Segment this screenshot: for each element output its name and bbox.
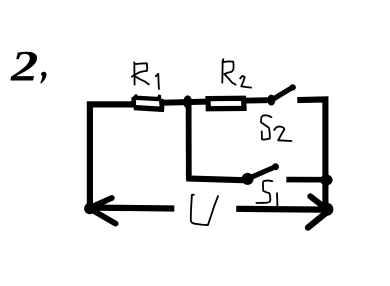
svg-text:2: 2 <box>10 41 38 90</box>
